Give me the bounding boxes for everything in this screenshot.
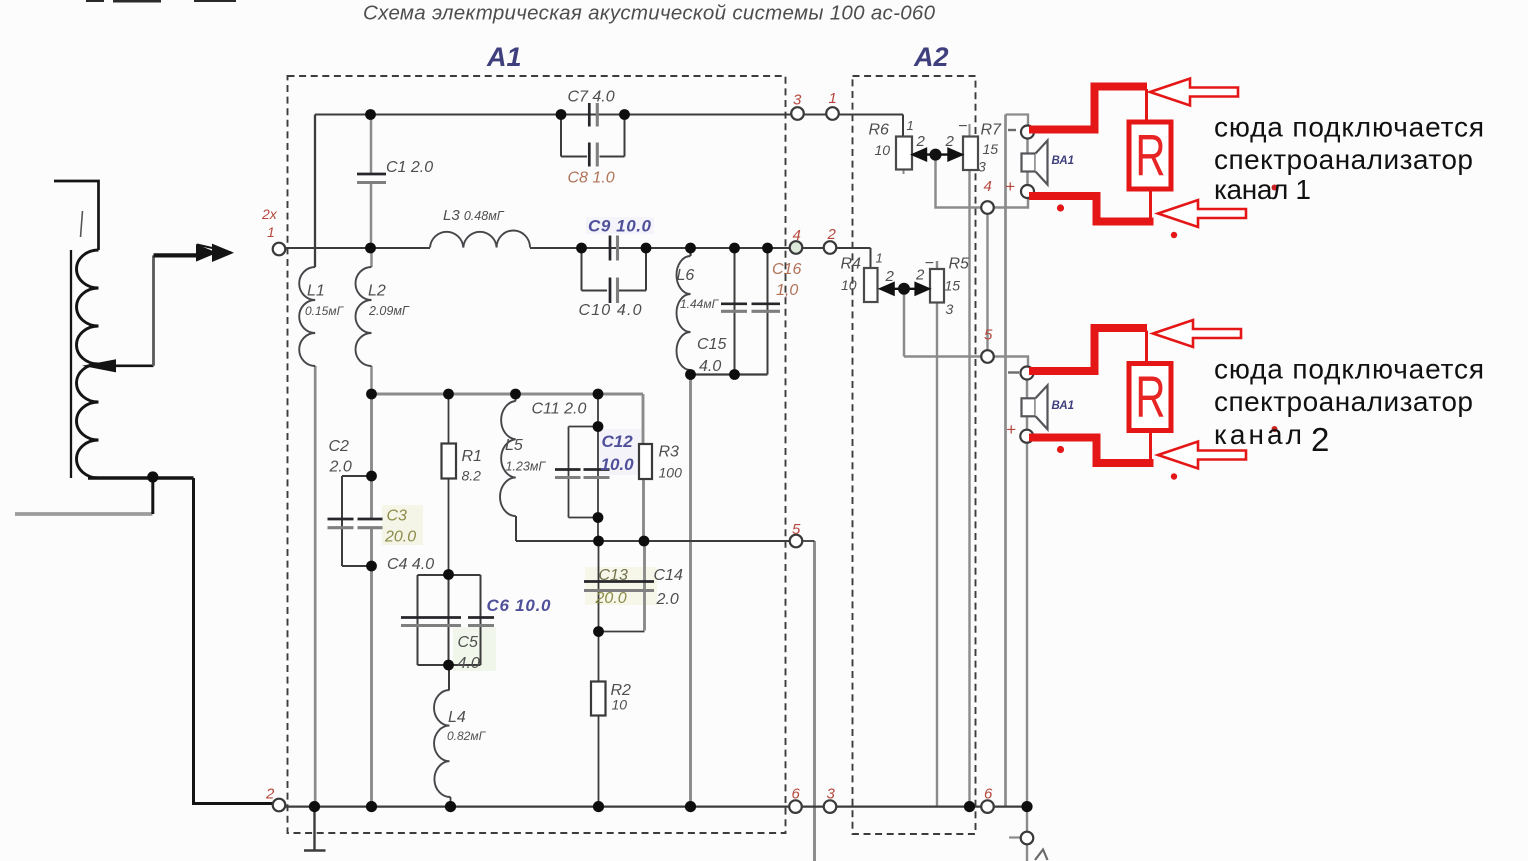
svg-text:3: 3 (946, 301, 954, 317)
svg-text:20.0: 20.0 (595, 590, 627, 607)
svg-text:R6: R6 (869, 122, 890, 139)
svg-text:10: 10 (875, 142, 891, 158)
svg-text:+: + (1006, 420, 1016, 439)
svg-text:100: 100 (659, 465, 683, 481)
svg-text:L6: L6 (677, 267, 695, 284)
svg-text:L1: L1 (307, 283, 325, 300)
svg-text:R7: R7 (981, 122, 1003, 139)
svg-text:1: 1 (876, 251, 883, 266)
svg-text:10: 10 (612, 697, 628, 713)
svg-text:C3: C3 (387, 508, 408, 525)
svg-text:А2: А2 (913, 42, 949, 72)
svg-text:2х: 2х (261, 206, 278, 222)
svg-text:2.09мГ: 2.09мГ (368, 304, 410, 318)
svg-text:10.0: 10.0 (601, 455, 635, 474)
svg-text:2: 2 (916, 133, 926, 150)
svg-text:ВА1: ВА1 (1052, 400, 1075, 412)
svg-text:L5: L5 (505, 437, 523, 454)
svg-text:1,0: 1,0 (776, 282, 798, 299)
svg-text:А1: А1 (486, 42, 522, 72)
svg-text:C12: C12 (602, 432, 634, 451)
svg-text:2.0: 2.0 (656, 591, 679, 608)
svg-text:R1: R1 (462, 448, 482, 465)
svg-text:20.0: 20.0 (384, 529, 416, 546)
svg-text:15: 15 (983, 141, 999, 157)
svg-text:2: 2 (265, 786, 275, 803)
svg-text:−: − (958, 118, 967, 135)
svg-text:ВА1: ВА1 (1052, 155, 1075, 167)
svg-text:L2: L2 (368, 283, 386, 300)
svg-text:C13: C13 (599, 567, 628, 584)
svg-text:2: 2 (827, 226, 837, 243)
svg-text:C1 2.0: C1 2.0 (386, 159, 433, 176)
svg-text:1: 1 (907, 118, 914, 133)
svg-text:C15: C15 (697, 336, 726, 353)
svg-text:15: 15 (945, 278, 961, 294)
svg-text:4.0: 4.0 (699, 358, 721, 375)
svg-text:сюда подключается: сюда подключается (1214, 354, 1484, 385)
svg-text:спектроанализатор: спектроанализатор (1214, 144, 1473, 175)
svg-text:C7 4.0: C7 4.0 (568, 89, 615, 106)
svg-text:2: 2 (885, 268, 895, 285)
svg-text:2: 2 (1311, 421, 1329, 458)
svg-text:R5: R5 (949, 256, 970, 273)
svg-text:L4: L4 (448, 709, 466, 726)
svg-text:+: + (1005, 177, 1015, 196)
svg-text:5: 5 (792, 521, 801, 538)
svg-text:0.15мГ: 0.15мГ (305, 304, 345, 318)
svg-text:1.44мГ: 1.44мГ (680, 297, 720, 311)
svg-text:1.23мГ: 1.23мГ (506, 460, 547, 474)
svg-text:C10 4.0: C10 4.0 (579, 302, 642, 319)
svg-text:10: 10 (841, 277, 857, 293)
svg-text:4.0: 4.0 (458, 655, 480, 672)
svg-text:R3: R3 (659, 444, 680, 461)
svg-text:1: 1 (267, 224, 275, 240)
svg-text:8.2: 8.2 (462, 468, 482, 484)
svg-text:C14: C14 (654, 567, 683, 584)
svg-text:2: 2 (945, 133, 955, 150)
svg-text:C4 4.0: C4 4.0 (387, 556, 434, 573)
svg-text:1: 1 (829, 90, 837, 107)
svg-text:C5: C5 (458, 634, 479, 651)
svg-text:C9 10.0: C9 10.0 (588, 217, 652, 236)
svg-text:6: 6 (792, 786, 801, 803)
svg-text:6: 6 (984, 786, 993, 803)
svg-text:C6 10.0: C6 10.0 (487, 596, 552, 615)
svg-text:C2: C2 (329, 438, 350, 455)
svg-text:4: 4 (984, 178, 992, 195)
svg-text:2.0: 2.0 (329, 459, 352, 476)
svg-text:R4: R4 (841, 256, 862, 273)
svg-text:Схема электрическая акустическ: Схема электрическая акустической системы… (363, 2, 936, 25)
svg-text:спектроанализатор: спектроанализатор (1214, 386, 1473, 417)
svg-text:3: 3 (793, 92, 802, 109)
svg-text:3: 3 (827, 786, 836, 803)
svg-text:0.82мГ: 0.82мГ (447, 729, 487, 743)
svg-text:C8 1.0: C8 1.0 (568, 170, 615, 187)
svg-text:3: 3 (978, 159, 986, 175)
svg-text:сюда подключается: сюда подключается (1214, 112, 1484, 143)
svg-text:2: 2 (915, 267, 925, 284)
svg-text:L3 0.48мГ: L3 0.48мГ (443, 207, 505, 224)
svg-text:канал 1: канал 1 (1214, 174, 1311, 205)
svg-text:−: − (925, 255, 934, 272)
svg-text:C16: C16 (772, 261, 801, 278)
svg-text:4: 4 (793, 227, 801, 244)
svg-text:C11 2.0: C11 2.0 (532, 401, 587, 418)
svg-text:5: 5 (984, 327, 993, 344)
